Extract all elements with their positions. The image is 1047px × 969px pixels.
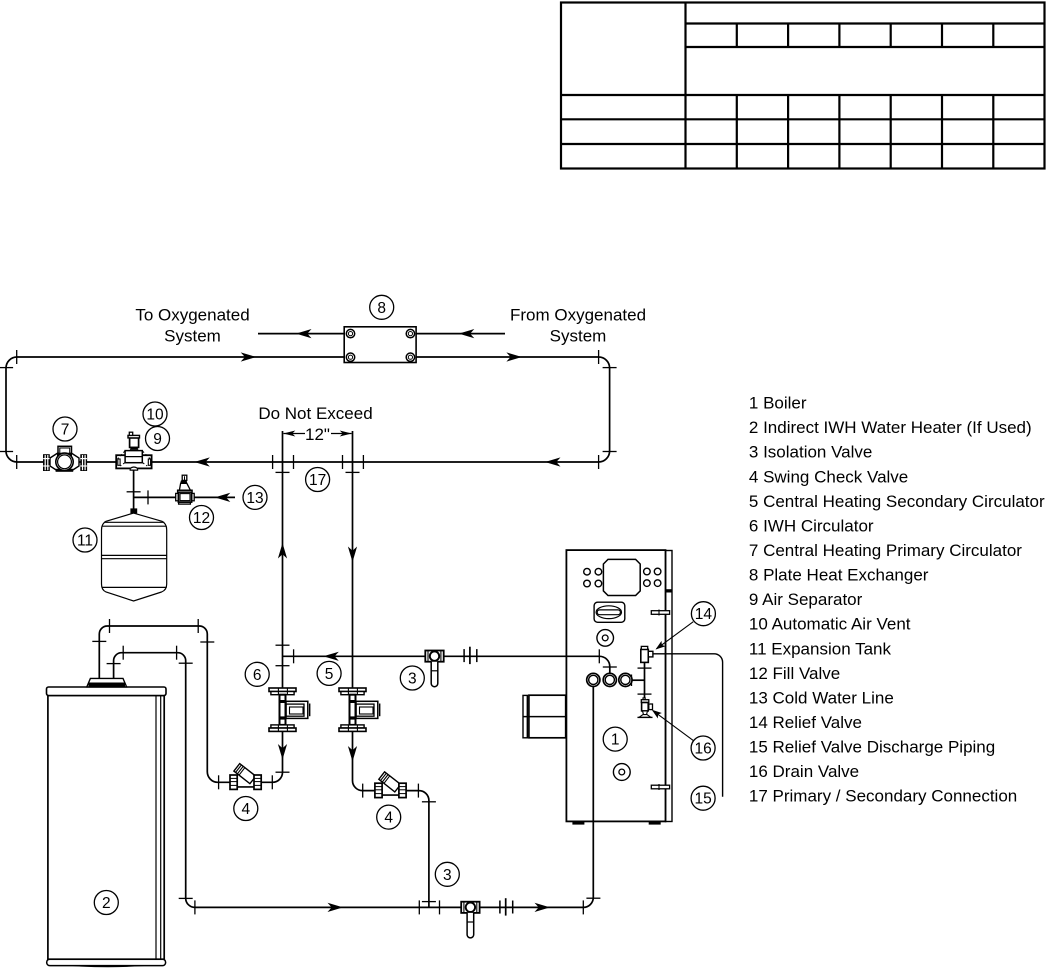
svg-text:4: 4 [384, 810, 393, 827]
boiler sight glass [597, 630, 614, 647]
node 5 [317, 661, 341, 685]
svg-text:10 Automatic Air Vent: 10 Automatic Air Vent [749, 615, 911, 634]
wire: boiler port3 line [631, 679, 645, 681]
svg-text:13: 13 [246, 490, 263, 507]
svg-text:3 Isolation Valve: 3 Isolation Valve [749, 443, 872, 462]
boiler burner box [529, 695, 566, 738]
boiler hinge top [651, 610, 669, 616]
svg-text:8 Plate Heat Exchanger: 8 Plate Heat Exchanger [749, 566, 929, 585]
air separator U9 with automatic air vent U10 [116, 432, 151, 470]
svg-text:9: 9 [153, 431, 162, 448]
svg-text:3: 3 [408, 671, 417, 688]
node 1 [603, 727, 627, 751]
svg-text:16: 16 [694, 741, 711, 758]
svg-text:3: 3 [443, 867, 452, 884]
svg-text:12": 12" [305, 425, 330, 444]
svg-text:4: 4 [241, 801, 250, 818]
leader to drain valve 16 [650, 707, 694, 741]
union bottom pipe [500, 898, 513, 915]
pump 5: central heating secondary circulator [339, 688, 380, 731]
svg-text:1 Boiler: 1 Boiler [749, 394, 807, 413]
wire: secondary header [17, 461, 599, 463]
node 6 [245, 662, 269, 686]
wire: cold water fill line [134, 496, 235, 498]
legend list [749, 394, 1045, 806]
svg-text:Do Not Exceed: Do Not Exceed [258, 404, 372, 423]
svg-text:11 Expansion Tank: 11 Expansion Tank [749, 639, 892, 658]
node 13 [243, 485, 267, 509]
flow arrow: header leftward near right elbow [545, 457, 561, 466]
wire: upper oxygenated stub right [414, 333, 505, 335]
flow arrow: bottom return rightward (left) [328, 903, 344, 912]
node 10 [143, 402, 167, 426]
valve 4b: swing check valve right [375, 772, 406, 798]
expansion tank U11 [102, 508, 167, 601]
boiler 1 body [523, 550, 672, 825]
svg-text:11: 11 [77, 533, 93, 550]
flow arrow: header leftward near pump 7 [194, 457, 210, 466]
svg-text:2 Indirect IWH Water Heater (I: 2 Indirect IWH Water Heater (If Used) [749, 418, 1032, 437]
svg-text:12 Fill Valve: 12 Fill Valve [749, 664, 840, 683]
svg-text:17: 17 [309, 472, 326, 489]
LABEL CIRCLES [53, 295, 715, 914]
svg-text:To Oxygenated: To Oxygenated [135, 306, 249, 325]
svg-text:2: 2 [102, 895, 111, 912]
leader to relief valve 14 [653, 622, 693, 653]
node 3a [400, 666, 424, 690]
svg-text:14 Relief Valve: 14 Relief Valve [749, 713, 862, 732]
svg-text:5: 5 [325, 666, 334, 683]
valve 3b: isolation valve bottom [461, 902, 479, 938]
wire: right loop elbow+vertical [599, 357, 610, 462]
node 4a [234, 797, 258, 821]
flow arrow: riser 1 upward [278, 543, 287, 559]
boiler logo badge [594, 602, 625, 622]
node 12 [190, 506, 214, 530]
svg-text:7 Central Heating Primary Circ: 7 Central Heating Primary Circulator [749, 541, 1022, 560]
relief valve U14 [641, 646, 653, 662]
node 16 [691, 736, 715, 760]
wire: air separator drop pipe [133, 470, 135, 509]
svg-text:6 IWH Circulator: 6 IWH Circulator [749, 516, 874, 535]
wire: riser pipe 2 [353, 431, 363, 791]
wire: riser pipe 1 [273, 431, 283, 782]
flow arrow: riser 2 downward [348, 547, 357, 563]
node 15 [691, 786, 715, 810]
flow arrow: to-system stub left [296, 329, 312, 338]
node 2 [94, 891, 118, 915]
svg-text:7: 7 [61, 422, 70, 439]
flow arrow: mid supply leftward [323, 652, 339, 661]
wire: mid boiler supply pipe [283, 656, 610, 674]
svg-text:16 Drain Valve: 16 Drain Valve [749, 762, 859, 781]
svg-text:5 Central Heating Secondary Ci: 5 Central Heating Secondary Circulator [749, 492, 1045, 511]
node 7 [53, 417, 77, 441]
flow arrow: bottom return rightward (right) [535, 903, 551, 912]
node 9 [146, 427, 170, 451]
flow arrow: top supply line right (left segment) [241, 352, 257, 361]
svg-text:System: System [164, 326, 221, 345]
svg-text:17 Primary / Secondary Connect: 17 Primary / Secondary Connection [749, 787, 1017, 806]
svg-text:15 Relief Valve Discharge Pipi: 15 Relief Valve Discharge Piping [749, 738, 995, 757]
node 4b [377, 805, 401, 829]
boiler buttons [584, 568, 661, 587]
svg-text:1: 1 [611, 732, 620, 749]
wire: relief discharge piping 15 [653, 654, 723, 797]
plate heat exchanger U8 [344, 327, 416, 363]
union mid pipe [464, 647, 477, 664]
svg-text:4 Swing Check Valve: 4 Swing Check Valve [749, 467, 908, 486]
flow arrow: top supply line right (right segment) [506, 352, 522, 361]
svg-text:System: System [550, 326, 607, 345]
wire: tank pipe B (to bottom return) [114, 653, 594, 908]
boiler hinge bottom [651, 784, 669, 790]
boiler ports [587, 673, 632, 686]
wire: relief drain riser [644, 662, 646, 700]
flow arrow: cold water line 13 leftward [215, 493, 231, 502]
svg-text:From Oxygenated: From Oxygenated [510, 306, 646, 325]
wire: left loop elbow+vertical [6, 357, 17, 462]
node 3b [435, 862, 459, 886]
wire: top boiler-loop supply line [17, 356, 599, 358]
flow arrow: below pump 6 downward [278, 744, 287, 760]
node 14 [691, 602, 715, 626]
node 17 [306, 468, 330, 492]
node 11 [73, 528, 97, 552]
node 8 [370, 295, 394, 319]
svg-text:14: 14 [695, 606, 713, 623]
svg-text:15: 15 [694, 791, 711, 808]
boiler display [603, 559, 640, 595]
boiler lower circle [613, 764, 630, 781]
flow arrow: from-system stub left [459, 329, 475, 338]
tank 2: indirect water heater [47, 678, 167, 967]
pipe fitting tick marks [0, 350, 652, 914]
pump 7: central heating primary circulator [43, 446, 87, 472]
svg-text:6: 6 [253, 667, 262, 684]
dimension 12in [283, 425, 351, 444]
valve 3a: isolation valve mid pipe [425, 651, 443, 687]
fill valve U12 [176, 475, 195, 504]
svg-text:13 Cold Water Line: 13 Cold Water Line [749, 688, 894, 707]
wire: check valve line right [363, 791, 429, 908]
wire: tank pipe A (outer loop) [99, 626, 272, 782]
title block table [561, 3, 1045, 169]
svg-text:9 Air Separator: 9 Air Separator [749, 590, 863, 609]
svg-text:8: 8 [377, 300, 386, 317]
valve 4a: swing check valve left [230, 764, 261, 790]
wire: upper oxygenated stub left [258, 333, 347, 335]
svg-text:12: 12 [193, 510, 210, 527]
pump 6: IWH circulator [269, 688, 310, 731]
svg-text:10: 10 [146, 407, 164, 424]
drain valve U16 [638, 698, 653, 718]
flow arrow: below pump 5 downward [348, 746, 357, 762]
